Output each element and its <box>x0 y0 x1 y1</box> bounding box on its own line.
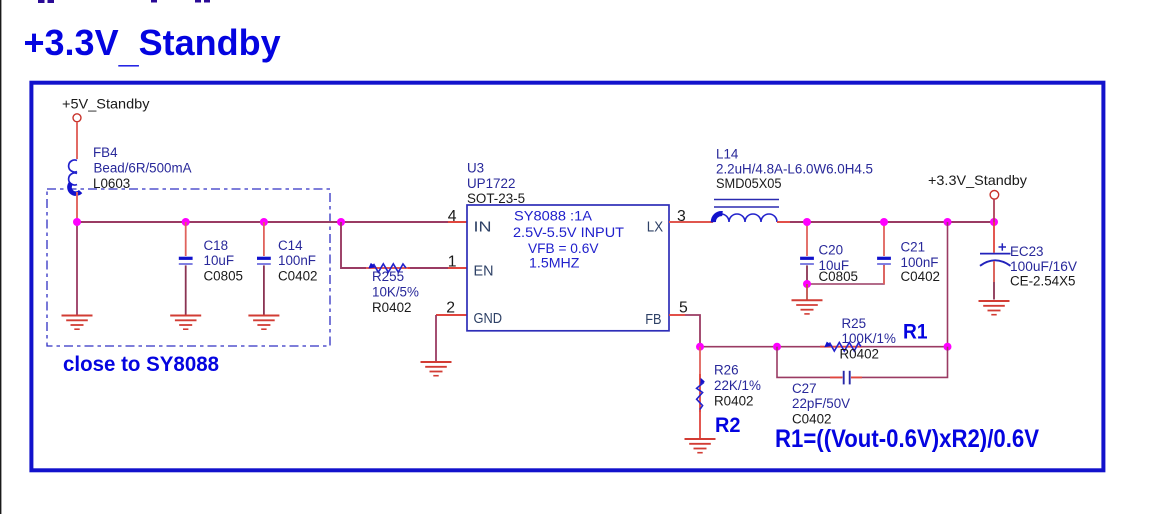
ground C14 <box>248 316 279 330</box>
FB4 labels <box>93 145 192 191</box>
dashed keep-close box <box>47 189 330 346</box>
L14 labels <box>716 146 873 191</box>
svg-text:C27: C27 <box>792 381 817 396</box>
terminal +3.3V_Standby <box>990 191 999 200</box>
U3 pin names <box>474 219 664 328</box>
svg-text:10K/5%: 10K/5% <box>372 285 419 300</box>
svg-text:R2: R2 <box>715 413 741 437</box>
svg-text:CE-2.54X5: CE-2.54X5 <box>1010 274 1076 289</box>
annotation close to SY8088 <box>63 353 219 376</box>
svg-text:100nF: 100nF <box>278 253 316 268</box>
node junction (77,222) <box>73 218 81 226</box>
svg-text:C0805: C0805 <box>819 269 858 284</box>
svg-text:U3: U3 <box>467 161 484 176</box>
svg-text:2.5V-5.5V INPUT: 2.5V-5.5V INPUT <box>513 225 624 241</box>
ground U3 <box>421 362 452 376</box>
resistor R25 <box>820 342 862 351</box>
svg-text:EN: EN <box>474 264 494 280</box>
svg-text:1.5MHZ: 1.5MHZ <box>529 256 580 272</box>
svg-text:SY8088 :1A: SY8088 :1A <box>514 209 593 225</box>
annotation R1 <box>903 320 928 344</box>
svg-text:100K/1%: 100K/1% <box>842 331 896 346</box>
svg-text:+3.3V_Standby: +3.3V_Standby <box>928 172 1027 188</box>
U3 pin numbers <box>446 208 688 317</box>
node junction (884,222) <box>880 218 888 226</box>
wire LX to L14 <box>669 221 713 223</box>
wire GND pin <box>436 315 467 361</box>
node junction (185.7,222) <box>182 218 190 226</box>
node junction (700,346.7) <box>696 343 704 351</box>
wire terminal drop <box>993 199 995 222</box>
svg-text:L14: L14 <box>716 146 739 161</box>
capacitor C14 <box>257 222 271 315</box>
wire +5V terminal to FB4 <box>76 122 78 159</box>
svg-text:R1=((Vout-0.6V)xR2)/0.6V: R1=((Vout-0.6V)xR2)/0.6V <box>775 425 1039 453</box>
svg-text:GND: GND <box>474 311 503 327</box>
ground C20 <box>792 300 823 314</box>
svg-text:5: 5 <box>679 300 688 317</box>
ferrite bead FB4 <box>69 160 81 222</box>
ground R26 <box>685 439 716 453</box>
wire main bus <box>77 221 467 223</box>
U3 labels <box>467 161 525 207</box>
wire FB feedback drop <box>947 222 949 347</box>
svg-text:22K/1%: 22K/1% <box>714 378 761 393</box>
svg-text:R0402: R0402 <box>714 394 753 409</box>
terminal +5V_Standby <box>73 114 81 122</box>
wire C20-C21 bottom link <box>807 264 884 284</box>
svg-text:1: 1 <box>448 254 457 271</box>
node junction (263.9,222) <box>260 218 268 226</box>
svg-text:EC23: EC23 <box>1010 244 1044 259</box>
svg-text:FB4: FB4 <box>93 145 118 160</box>
svg-text:C21: C21 <box>901 240 926 255</box>
wire FB pin <box>669 315 700 347</box>
C18 labels <box>204 238 243 284</box>
node junction (341,222) <box>337 218 345 226</box>
schematic border frame <box>31 83 1103 471</box>
svg-text:FB: FB <box>645 312 661 328</box>
node junction (947.5,346.7) <box>944 343 952 351</box>
annotation formula <box>775 425 1039 453</box>
wire left ground drop <box>76 222 78 315</box>
cut-off text descenders top edge <box>38 0 210 3</box>
svg-text:LX: LX <box>647 219 664 235</box>
wire C20 ground drop <box>806 284 808 300</box>
wire C27 parallel path <box>777 347 948 378</box>
svg-text:10uF: 10uF <box>204 253 235 268</box>
svg-text:C0402: C0402 <box>901 269 940 284</box>
R25 labels <box>840 316 896 362</box>
wire FB node row <box>700 346 777 348</box>
svg-text:UP1722: UP1722 <box>467 176 515 191</box>
svg-text:close to SY8088: close to SY8088 <box>63 353 219 376</box>
svg-text:R1: R1 <box>903 320 928 344</box>
R26 labels <box>714 363 761 409</box>
svg-text:C18: C18 <box>204 238 229 253</box>
wire output bus <box>777 221 994 223</box>
svg-text:R0402: R0402 <box>840 347 879 362</box>
C21 labels <box>901 240 940 284</box>
left window edge line <box>0 0 1 514</box>
capacitor C18 <box>179 222 193 315</box>
node junction (807,284) <box>803 280 811 288</box>
title +3.3V_Standby <box>24 22 281 70</box>
svg-text:100nF: 100nF <box>901 255 939 270</box>
ground C18 <box>170 316 201 330</box>
svg-text:R0402: R0402 <box>372 300 411 315</box>
U3 inner text <box>513 209 624 272</box>
ground left <box>62 316 93 330</box>
annotation R2 <box>715 413 741 437</box>
C14 labels <box>278 238 317 284</box>
node junction (947.5,222) <box>944 218 952 226</box>
node junction (807,222) <box>803 218 811 226</box>
capacitor C21 <box>877 222 891 284</box>
wire EN pin stub <box>448 267 467 269</box>
capacitor C27 <box>830 371 862 385</box>
svg-text:C0805: C0805 <box>204 269 243 284</box>
wire R25 row <box>777 346 948 348</box>
wire EN branch <box>341 222 448 268</box>
svg-text:SOT-23-5: SOT-23-5 <box>467 191 525 206</box>
op-amp U3 box <box>467 205 669 331</box>
C27 labels <box>792 381 850 427</box>
resistor R255 <box>366 263 410 272</box>
svg-text:R25: R25 <box>842 316 867 331</box>
svg-text:SMD05X05: SMD05X05 <box>716 176 782 191</box>
svg-text:2.2uH/4.8A-L6.0W6.0H4.5: 2.2uH/4.8A-L6.0W6.0H4.5 <box>716 162 873 177</box>
net label +5V_Standby <box>62 96 150 112</box>
net label +3.3V_Standby <box>928 172 1027 188</box>
node junction (994,222) <box>990 218 998 226</box>
svg-text:IN: IN <box>474 219 492 235</box>
inductor L14 <box>713 200 779 223</box>
svg-text:R255: R255 <box>372 269 404 284</box>
svg-text:Bead/6R/500mA: Bead/6R/500mA <box>94 161 192 176</box>
svg-text:L0603: L0603 <box>93 176 130 191</box>
capacitor EC23 <box>980 222 1011 300</box>
node junction (777,346.7) <box>773 343 781 351</box>
svg-text:100uF/16V: 100uF/16V <box>1010 259 1077 274</box>
resistor R26 <box>697 347 705 438</box>
ground EC23 <box>979 301 1010 315</box>
C20 labels <box>819 243 858 284</box>
svg-text:4: 4 <box>448 208 457 225</box>
svg-text:22pF/50V: 22pF/50V <box>792 396 850 411</box>
EC23 labels <box>1010 244 1077 289</box>
svg-text:2: 2 <box>446 300 455 317</box>
svg-text:C20: C20 <box>819 243 844 258</box>
svg-text:C14: C14 <box>278 238 303 253</box>
R255 labels <box>372 269 419 315</box>
svg-text:+3.3V_Standby: +3.3V_Standby <box>24 22 281 70</box>
svg-text:+5V_Standby: +5V_Standby <box>62 96 150 112</box>
capacitor C20 <box>800 222 814 284</box>
svg-text:R26: R26 <box>714 363 739 378</box>
svg-text:C0402: C0402 <box>278 269 317 284</box>
